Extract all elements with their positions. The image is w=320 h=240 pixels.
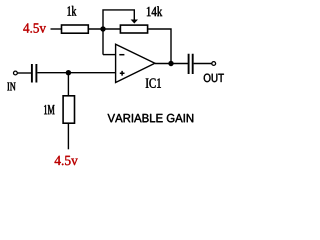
plus symbol — [120, 71, 125, 76]
wiper arrowhead — [131, 20, 138, 24]
minus symbol — [119, 54, 124, 56]
node junction dot (output node) — [168, 61, 173, 66]
capacitor C1 — [32, 64, 37, 83]
label OUT — [204, 74, 224, 82]
wire - input stub — [103, 54, 116, 56]
capacitor C2 — [189, 54, 193, 74]
wire 4.5v to R1 — [51, 28, 62, 30]
OUT terminal — [212, 62, 216, 66]
label IC1 — [146, 78, 161, 87]
label 4.5v (top, red) — [23, 23, 46, 32]
node junction dot (bias node) — [66, 70, 71, 75]
op-amp U1 triangle — [116, 44, 155, 82]
label 14k — [147, 6, 162, 16]
potentiometer VR1 14k — [120, 25, 147, 33]
resistor R2 1M — [63, 96, 74, 123]
wire op-amp output to C2 — [155, 63, 188, 65]
wire IN terminal to C1 — [17, 72, 31, 74]
node junction dot (inverting node) — [100, 26, 105, 31]
wire node down to R2 — [67, 73, 69, 96]
wire left rail (node up to loop, down to - input) — [103, 10, 134, 55]
label 4.5v (bottom, red) — [55, 156, 78, 165]
wire C1 to + input — [37, 72, 116, 74]
label 1k — [67, 6, 76, 16]
IN terminal — [14, 71, 18, 75]
label IN — [7, 83, 15, 91]
wire R1 to pot — [89, 28, 120, 30]
wire R2 to 4.5v — [67, 123, 69, 149]
wire pot right to output node — [148, 29, 171, 64]
resistor R1 1k — [62, 25, 89, 33]
caption VARIABLE GAIN — [108, 114, 194, 122]
label 1M — [44, 105, 54, 114]
wire C2 to OUT terminal — [194, 63, 212, 65]
